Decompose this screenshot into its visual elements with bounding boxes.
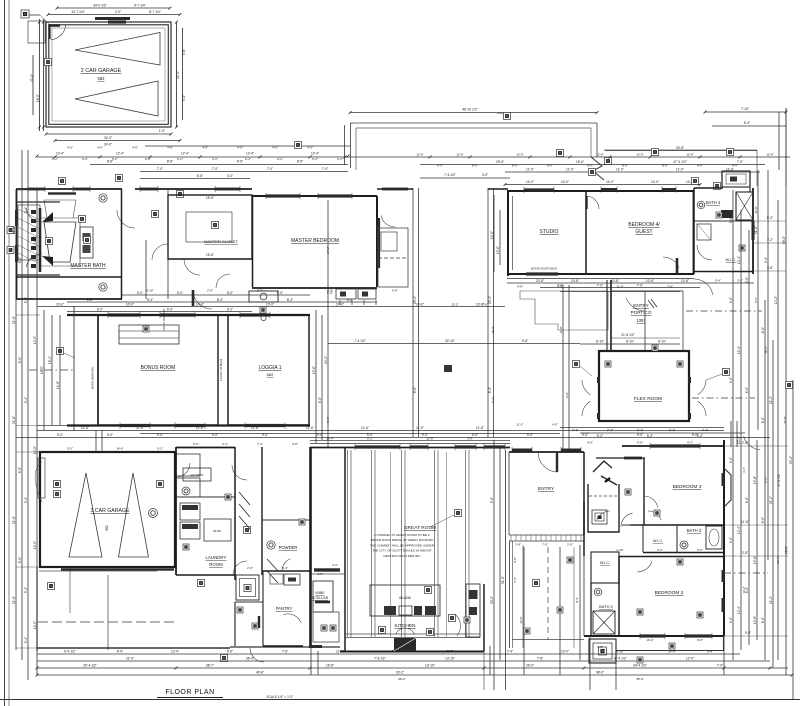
svg-text:5'-4": 5'-4" xyxy=(24,297,28,303)
svg-text:8'-0": 8'-0" xyxy=(413,387,417,393)
extra top band texts xyxy=(328,343,580,345)
svg-text:10'-8": 10'-8" xyxy=(646,279,654,283)
powder xyxy=(309,447,311,646)
svg-text:7'-0": 7'-0" xyxy=(717,664,723,668)
svg-text:9'-6": 9'-6" xyxy=(326,417,330,423)
svg-text:LINE OF ROOF ABV: LINE OF ROOF ABV xyxy=(163,309,166,332)
svg-text:6'-2": 6'-2" xyxy=(227,308,233,312)
svg-text:POWDER: POWDER xyxy=(279,545,298,550)
entry threshold band xyxy=(509,534,584,536)
svg-text:6'-2": 6'-2" xyxy=(97,308,103,312)
svg-text:16'-4": 16'-4" xyxy=(48,356,52,364)
svg-text:4'-0": 4'-0" xyxy=(317,572,323,576)
svg-text:15'-8": 15'-8" xyxy=(753,556,757,564)
svg-text:24'-0": 24'-0" xyxy=(104,136,112,140)
svg-text:8'-0": 8'-0" xyxy=(761,417,765,423)
svg-text:5'-4": 5'-4" xyxy=(24,587,28,593)
svg-text:10'-0": 10'-0" xyxy=(266,303,274,307)
svg-text:4'-2": 4'-2" xyxy=(557,285,563,289)
wic 2 xyxy=(591,552,619,583)
svg-text:12'-6": 12'-6" xyxy=(686,153,693,157)
dim col right of loggia xyxy=(315,310,317,443)
svg-text:6'-4": 6'-4" xyxy=(282,566,288,570)
svg-text:11'-0": 11'-0" xyxy=(676,168,684,172)
top right corner dims xyxy=(705,111,786,113)
left dimension lines xyxy=(15,190,17,650)
svg-text:BATH 3: BATH 3 xyxy=(687,528,702,533)
shower bath4 with X xyxy=(736,192,753,220)
linen with diagonal xyxy=(697,224,711,240)
svg-text:12'-0": 12'-0" xyxy=(33,446,37,454)
svg-text:12'-4": 12'-4" xyxy=(311,152,319,156)
svg-text:38'-7": 38'-7" xyxy=(206,664,214,668)
svg-text:29'-4": 29'-4" xyxy=(413,296,417,304)
svg-text:7'-0": 7'-0" xyxy=(212,167,218,171)
svg-text:9'-0": 9'-0" xyxy=(57,433,63,437)
mud hall xyxy=(261,447,263,575)
svg-text:11'-6": 11'-6" xyxy=(361,426,369,430)
svg-text:8'-7 1/4": 8'-7 1/4" xyxy=(149,10,161,14)
svg-text:9'-2": 9'-2" xyxy=(764,477,768,483)
svg-text:21'-0": 21'-0" xyxy=(754,226,758,234)
door arc garage man-door xyxy=(51,25,66,40)
svg-text:8'-0": 8'-0" xyxy=(587,164,593,168)
svg-text:12'-0": 12'-0" xyxy=(519,616,523,623)
svg-text:21'-6": 21'-6" xyxy=(12,226,16,234)
svg-text:6'-2": 6'-2" xyxy=(167,308,173,312)
svg-text:6'-2": 6'-2" xyxy=(212,157,218,161)
wall: studio block bottom xyxy=(507,273,694,275)
toilets master bath xyxy=(99,194,107,202)
svg-text:5'-0": 5'-0" xyxy=(490,497,494,503)
right band connector lines xyxy=(753,220,786,222)
svg-text:6'-0": 6'-0" xyxy=(193,442,199,446)
svg-text:5'-0": 5'-0" xyxy=(177,291,183,295)
media cabinet bonus xyxy=(119,325,179,344)
svg-text:7'-0": 7'-0" xyxy=(637,284,643,288)
svg-text:12'-0": 12'-0" xyxy=(686,657,694,661)
svg-text:8'-6": 8'-6" xyxy=(297,160,303,164)
svg-text:14'-0": 14'-0" xyxy=(526,180,534,184)
svg-text:3'-6": 3'-6" xyxy=(767,266,773,270)
svg-text:9'-0": 9'-0" xyxy=(729,377,733,383)
svg-text:8'-0": 8'-0" xyxy=(662,164,668,168)
svg-text:12'-4": 12'-4" xyxy=(246,152,254,156)
svg-text:32'-10": 32'-10" xyxy=(445,339,455,343)
svg-text:8'-6": 8'-6" xyxy=(587,441,593,445)
shower left xyxy=(18,205,40,260)
svg-text:KEYDROP: KEYDROP xyxy=(191,473,204,477)
svg-text:ISLND: ISLND xyxy=(213,529,221,533)
door arc below bath4 xyxy=(694,279,713,295)
svg-text:8'-0": 8'-0" xyxy=(257,289,263,293)
svg-text:12'-6": 12'-6" xyxy=(516,153,523,157)
svg-text:6'-2": 6'-2" xyxy=(337,157,343,161)
great room ceiling beams xyxy=(347,450,349,637)
svg-text:4'-4": 4'-4" xyxy=(327,289,333,293)
svg-text:21'-2": 21'-2" xyxy=(769,496,773,504)
svg-text:9'-0": 9'-0" xyxy=(729,617,733,623)
svg-text:8'-0": 8'-0" xyxy=(437,164,443,168)
svg-text:BEDROOM 2: BEDROOM 2 xyxy=(655,590,684,596)
bedroom 2 xyxy=(619,556,724,558)
wall: 3 car garage xyxy=(40,452,175,567)
svg-text:15'-0": 15'-0" xyxy=(491,326,495,333)
svg-text:8'-0": 8'-0" xyxy=(622,164,628,168)
svg-text:13'-10": 13'-10" xyxy=(425,664,435,668)
svg-text:8'-6": 8'-6" xyxy=(237,160,243,164)
svg-text:22'-6": 22'-6" xyxy=(776,556,780,563)
svg-text:58'-0": 58'-0" xyxy=(636,677,643,681)
right dimension band xyxy=(732,190,734,660)
svg-text:4'-6": 4'-6" xyxy=(132,146,138,150)
svg-text:W.I.C.: W.I.C. xyxy=(726,257,737,262)
roof deck steps xyxy=(520,291,608,330)
svg-text:RESTRICTION 4 PER IRC: RESTRICTION 4 PER IRC xyxy=(384,554,422,558)
svg-text:3'-0": 3'-0" xyxy=(227,174,233,178)
svg-text:20'-2": 20'-2" xyxy=(396,671,404,675)
svg-text:12'-0": 12'-0" xyxy=(754,206,758,213)
svg-text:24'-0": 24'-0" xyxy=(104,143,112,147)
svg-text:3'-6": 3'-6" xyxy=(467,437,473,441)
svg-text:PANTRY: PANTRY xyxy=(276,606,293,611)
svg-text:6'-0": 6'-0" xyxy=(318,397,322,403)
tub nook above xyxy=(722,171,750,187)
extra window ticks on walls xyxy=(27,186,29,192)
dim col left of studio xyxy=(493,195,495,272)
svg-text:4'-6": 4'-6" xyxy=(307,146,313,150)
svg-text:58'-0": 58'-0" xyxy=(785,546,789,554)
svg-text:21'-0": 21'-0" xyxy=(126,657,134,661)
svg-text:15'-8": 15'-8" xyxy=(753,616,757,624)
hall doors between bath and closet xyxy=(117,210,135,228)
garage dims right xyxy=(176,22,178,127)
svg-text:WOOD ROOF DECK: WOOD ROOF DECK xyxy=(531,267,558,271)
svg-text:10'-8": 10'-8" xyxy=(536,279,544,283)
keynote syms master bath xyxy=(79,216,86,223)
svg-text:12'-4": 12'-4" xyxy=(737,526,741,534)
master closet xyxy=(168,195,252,259)
svg-text:FLEX ROOM: FLEX ROOM xyxy=(634,396,662,402)
svg-text:48'-10 1/2": 48'-10 1/2" xyxy=(462,108,477,112)
loggia xyxy=(228,315,309,425)
svg-text:3'-0": 3'-0" xyxy=(597,645,603,649)
svg-text:5'-4": 5'-4" xyxy=(707,650,713,654)
svg-text:9'-6": 9'-6" xyxy=(522,339,528,343)
svg-text:12'-4": 12'-4" xyxy=(116,152,124,156)
wall: bonus room xyxy=(67,314,310,316)
svg-text:11'-6": 11'-6" xyxy=(741,520,749,524)
svg-text:5'-6": 5'-6" xyxy=(697,548,703,552)
svg-text:6'-2": 6'-2" xyxy=(657,548,663,552)
svg-text:8'-2": 8'-2" xyxy=(491,397,495,403)
mud room left strip xyxy=(234,602,236,646)
svg-text:21'-2": 21'-2" xyxy=(769,596,773,604)
svg-text:9'-8": 9'-8" xyxy=(513,557,517,563)
svg-text:ENTRY: ENTRY xyxy=(538,486,555,492)
svg-text:5'-4": 5'-4" xyxy=(715,279,721,283)
svg-text:9'-8": 9'-8" xyxy=(517,285,523,289)
svg-text:3'-0": 3'-0" xyxy=(482,303,488,307)
right top dims xyxy=(757,170,759,430)
svg-text:8'-6": 8'-6" xyxy=(167,160,173,164)
middle dimension band xyxy=(16,437,770,439)
svg-text:WOOD BEAM ABV: WOOD BEAM ABV xyxy=(91,367,95,389)
svg-text:5'-0": 5'-0" xyxy=(137,291,143,295)
svg-text:47'-4 1/2": 47'-4 1/2" xyxy=(673,160,686,164)
svg-text:6'-2": 6'-2" xyxy=(112,157,118,161)
svg-text:3 CAR GARAGE: 3 CAR GARAGE xyxy=(91,508,130,514)
svg-text:11'-0": 11'-0" xyxy=(616,285,623,289)
svg-text:12'-6": 12'-6" xyxy=(596,153,603,157)
svg-text:12'-6": 12'-6" xyxy=(636,153,643,157)
svg-text:5'-4": 5'-4" xyxy=(24,637,28,643)
svg-text:10'-8": 10'-8" xyxy=(571,279,579,283)
svg-text:8'-4": 8'-4" xyxy=(575,597,579,603)
svg-text:29'-4 1/2": 29'-4 1/2" xyxy=(83,664,96,668)
svg-text:14'-8": 14'-8" xyxy=(56,381,60,389)
svg-text:7'-2": 7'-2" xyxy=(257,442,263,446)
svg-text:13'-10": 13'-10" xyxy=(445,657,455,661)
svg-text:BATH 2: BATH 2 xyxy=(599,604,613,609)
svg-text:5'-2": 5'-2" xyxy=(157,447,163,451)
garage right cabinets xyxy=(176,454,200,476)
svg-text:11'-6": 11'-6" xyxy=(416,426,424,430)
svg-text:5'-4": 5'-4" xyxy=(24,497,28,503)
vestibule below closet xyxy=(168,258,252,260)
svg-text:LAUNDRY: LAUNDRY xyxy=(206,555,227,560)
svg-text:4'-0": 4'-0" xyxy=(552,423,558,427)
svg-text:14'-2": 14'-2" xyxy=(774,296,778,304)
svg-text:31'-8": 31'-8" xyxy=(783,416,787,423)
svg-text:682: 682 xyxy=(98,76,106,81)
svg-text:2'-8": 2'-8" xyxy=(515,543,521,547)
garage dims left xyxy=(43,19,45,131)
svg-text:6'-2": 6'-2" xyxy=(145,157,151,161)
svg-text:10'-2": 10'-2" xyxy=(646,638,653,642)
svg-text:11'-6": 11'-6" xyxy=(251,426,259,430)
svg-text:31'-0": 31'-0" xyxy=(501,576,505,584)
svg-text:9'-8": 9'-8" xyxy=(447,650,453,654)
dashed right xyxy=(724,572,768,574)
svg-text:8'-2": 8'-2" xyxy=(488,387,492,393)
svg-text:GUEST: GUEST xyxy=(635,229,652,235)
svg-text:12'-4": 12'-4" xyxy=(737,256,741,264)
svg-text:9'-4": 9'-4" xyxy=(764,257,768,263)
svg-text:7'-4": 7'-4" xyxy=(507,650,513,654)
svg-text:9'-6": 9'-6" xyxy=(182,49,186,55)
dim band below studio xyxy=(507,278,694,280)
master bath fixtures: tub xyxy=(44,222,76,262)
svg-text:3'-0": 3'-0" xyxy=(482,173,488,177)
svg-text:BONUS ROOM: BONUS ROOM xyxy=(141,365,176,371)
svg-text:4'-6": 4'-6" xyxy=(67,146,73,150)
svg-text:6'-2": 6'-2" xyxy=(52,157,58,161)
detail: 2 car garage dims top xyxy=(57,7,170,9)
svg-text:9'-0": 9'-0" xyxy=(729,217,733,223)
svg-text:8'-10": 8'-10" xyxy=(658,340,666,344)
wall: flex room xyxy=(599,351,689,421)
svg-text:10'-0": 10'-0" xyxy=(126,303,134,307)
svg-text:15'-6": 15'-6" xyxy=(206,253,214,257)
svg-text:3'-10": 3'-10" xyxy=(616,650,624,654)
svg-text:5'-6": 5'-6" xyxy=(197,174,203,178)
svg-text:8'-0": 8'-0" xyxy=(18,357,22,363)
svg-text:6'-2": 6'-2" xyxy=(312,157,318,161)
svg-text:9'-0": 9'-0" xyxy=(729,457,733,463)
svg-text:8'-10": 8'-10" xyxy=(596,340,604,344)
svg-text:BEDROOM 4/: BEDROOM 4/ xyxy=(628,222,660,228)
svg-text:4'-6": 4'-6" xyxy=(237,146,243,150)
chimney wall above garage xyxy=(95,430,97,452)
svg-text:MASTER BATH: MASTER BATH xyxy=(70,263,106,269)
svg-text:THE CITY OF SCOTTSDALES 24 HEI: THE CITY OF SCOTTSDALES 24 HEIGHT xyxy=(372,549,432,553)
bottom dimension band xyxy=(37,653,740,655)
svg-text:FLOOR PLAN: FLOOR PLAN xyxy=(165,689,214,696)
svg-text:4'-4": 4'-4" xyxy=(222,442,228,446)
bed4 door bottom right xyxy=(663,257,679,268)
sink bath4 xyxy=(721,210,733,218)
svg-text:10'-0": 10'-0" xyxy=(561,650,569,654)
svg-text:20'-0": 20'-0" xyxy=(490,596,494,604)
svg-text:9'-0": 9'-0" xyxy=(212,433,218,437)
svg-text:13'-2": 13'-2" xyxy=(742,586,746,593)
svg-text:8'-4": 8'-4" xyxy=(147,298,153,302)
svg-text:8'-8": 8'-8" xyxy=(697,638,703,642)
svg-text:8'-0": 8'-0" xyxy=(18,557,22,563)
svg-text:12'-0": 12'-0" xyxy=(33,236,37,244)
svg-text:7'-6": 7'-6" xyxy=(282,650,288,654)
svg-text:SCALE 1/4" = 1'-0": SCALE 1/4" = 1'-0" xyxy=(267,695,294,699)
svg-text:16'-8": 16'-8" xyxy=(326,664,334,668)
svg-text:21'-6": 21'-6" xyxy=(12,416,16,424)
svg-text:21'-6": 21'-6" xyxy=(12,316,16,324)
svg-text:12'-6": 12'-6" xyxy=(766,153,773,157)
svg-text:3'-2": 3'-2" xyxy=(737,279,743,283)
svg-text:2'-4": 2'-4" xyxy=(742,441,748,445)
svg-text:7'-0": 7'-0" xyxy=(157,167,163,171)
svg-text:5'-4": 5'-4" xyxy=(744,121,750,125)
svg-text:8'-0": 8'-0" xyxy=(761,617,765,623)
svg-text:10'-8": 10'-8" xyxy=(611,279,619,283)
svg-text:5'-0": 5'-0" xyxy=(227,291,233,295)
center blob xyxy=(444,365,452,372)
svg-text:2'-2": 2'-2" xyxy=(332,563,338,567)
svg-text:29'-4": 29'-4" xyxy=(488,296,492,304)
svg-text:STUDIO: STUDIO xyxy=(540,229,559,235)
svg-text:12'-4": 12'-4" xyxy=(737,606,741,614)
svg-text:6'-2": 6'-2" xyxy=(82,157,88,161)
svg-text:ABOVE ROOF RIDGE. AT GREAT ROO: ABOVE ROOF RIDGE. AT GREAT ROOM BC xyxy=(370,538,434,542)
entry portico xyxy=(606,280,608,350)
left connector lines xyxy=(16,189,40,191)
bath 3 xyxy=(643,552,724,554)
svg-text:9'-0": 9'-0" xyxy=(729,537,733,543)
svg-text:9'-0": 9'-0" xyxy=(182,95,186,101)
svg-text:7'-4 1/2": 7'-4 1/2" xyxy=(354,339,366,343)
svg-text:2 CHIMNEY AT GREAT ROOM TO BE: 2 CHIMNEY AT GREAT ROOM TO BE 2' xyxy=(374,533,430,537)
svg-text:12'-4": 12'-4" xyxy=(56,152,64,156)
svg-text:4'-6": 4'-6" xyxy=(272,146,278,150)
svg-text:WINE: WINE xyxy=(315,591,325,595)
svg-text:5'-0": 5'-0" xyxy=(392,650,398,654)
svg-text:8'-4": 8'-4" xyxy=(217,298,223,302)
svg-text:4'-6": 4'-6" xyxy=(167,146,173,150)
svg-text:9'-8": 9'-8" xyxy=(565,392,569,398)
french doors flex left xyxy=(582,380,591,395)
svg-text:12'-8": 12'-8" xyxy=(426,437,433,441)
svg-text:14'-0": 14'-0" xyxy=(606,180,614,184)
svg-text:10'-0": 10'-0" xyxy=(416,303,424,307)
svg-text:12'-2": 12'-2" xyxy=(451,303,458,307)
svg-text:5'-10": 5'-10" xyxy=(146,289,153,293)
top dimension band xyxy=(145,145,350,147)
svg-text:21'-6": 21'-6" xyxy=(12,516,16,524)
hall xyxy=(583,502,585,556)
kitchen counter bottom xyxy=(345,633,480,635)
svg-text:6'-2": 6'-2" xyxy=(245,157,251,161)
master bath wet wall detail xyxy=(39,208,42,272)
svg-text:22'-0": 22'-0" xyxy=(30,74,34,82)
svg-text:14'-6": 14'-6" xyxy=(116,447,123,451)
skylight below bath2 xyxy=(589,639,616,663)
wall: master bath left bay xyxy=(16,189,18,299)
svg-text:7'-0": 7'-0" xyxy=(542,543,548,547)
svg-text:11'-6": 11'-6" xyxy=(81,426,89,430)
svg-text:3'-6": 3'-6" xyxy=(742,467,746,473)
svg-text:14'-4": 14'-4" xyxy=(668,650,676,654)
svg-text:2'-0": 2'-0" xyxy=(115,10,121,14)
svg-text:9'-0": 9'-0" xyxy=(107,433,113,437)
wall: studio top xyxy=(507,190,694,192)
svg-text:THE CHIMNEY WILL BE APPROVED U: THE CHIMNEY WILL BE APPROVED UNDER xyxy=(370,543,435,547)
svg-text:8'-10": 8'-10" xyxy=(626,340,634,344)
svg-text:5'-4": 5'-4" xyxy=(24,397,28,403)
svg-text:5'-4": 5'-4" xyxy=(513,577,517,583)
stoop left of garage xyxy=(28,21,45,43)
svg-text:12'-4": 12'-4" xyxy=(181,152,189,156)
svg-text:21'-8 1/2": 21'-8 1/2" xyxy=(621,333,634,337)
svg-text:4'-6": 4'-6" xyxy=(97,146,103,150)
svg-text:7'-6 1/2": 7'-6 1/2" xyxy=(444,173,456,177)
svg-text:7'-2": 7'-2" xyxy=(767,238,773,242)
svg-text:8'-0": 8'-0" xyxy=(732,164,738,168)
svg-text:2'-6": 2'-6" xyxy=(247,566,253,570)
svg-text:16'-4 1/2": 16'-4 1/2" xyxy=(613,657,626,661)
svg-text:12'-6": 12'-6" xyxy=(456,153,463,157)
svg-text:29'-6": 29'-6" xyxy=(496,160,504,164)
svg-text:BATH 4: BATH 4 xyxy=(706,200,721,205)
svg-text:11'-0": 11'-0" xyxy=(336,650,344,654)
kitchen tall cabinets right xyxy=(466,584,480,637)
buffet counter left xyxy=(314,568,340,571)
svg-text:11'-6": 11'-6" xyxy=(306,426,314,430)
svg-text:24'-2": 24'-2" xyxy=(324,356,328,364)
svg-text:8'-0": 8'-0" xyxy=(547,164,553,168)
svg-text:7'-6": 7'-6" xyxy=(667,285,673,289)
svg-text:18'-4": 18'-4" xyxy=(764,346,768,353)
svg-text:12'-0": 12'-0" xyxy=(33,336,37,344)
svg-text:11'-0": 11'-0" xyxy=(526,168,534,172)
bedroom3 bay window xyxy=(724,468,731,507)
svg-text:LOGGIA 1: LOGGIA 1 xyxy=(258,365,281,371)
svg-text:2'-8": 2'-8" xyxy=(567,543,573,547)
garage door swing triangles xyxy=(75,33,160,66)
svg-text:10'-0": 10'-0" xyxy=(56,303,64,307)
sheet border left xyxy=(4,0,6,706)
svg-text:ISLAND: ISLAND xyxy=(399,596,412,600)
wall between studio and bed4 xyxy=(585,191,587,274)
